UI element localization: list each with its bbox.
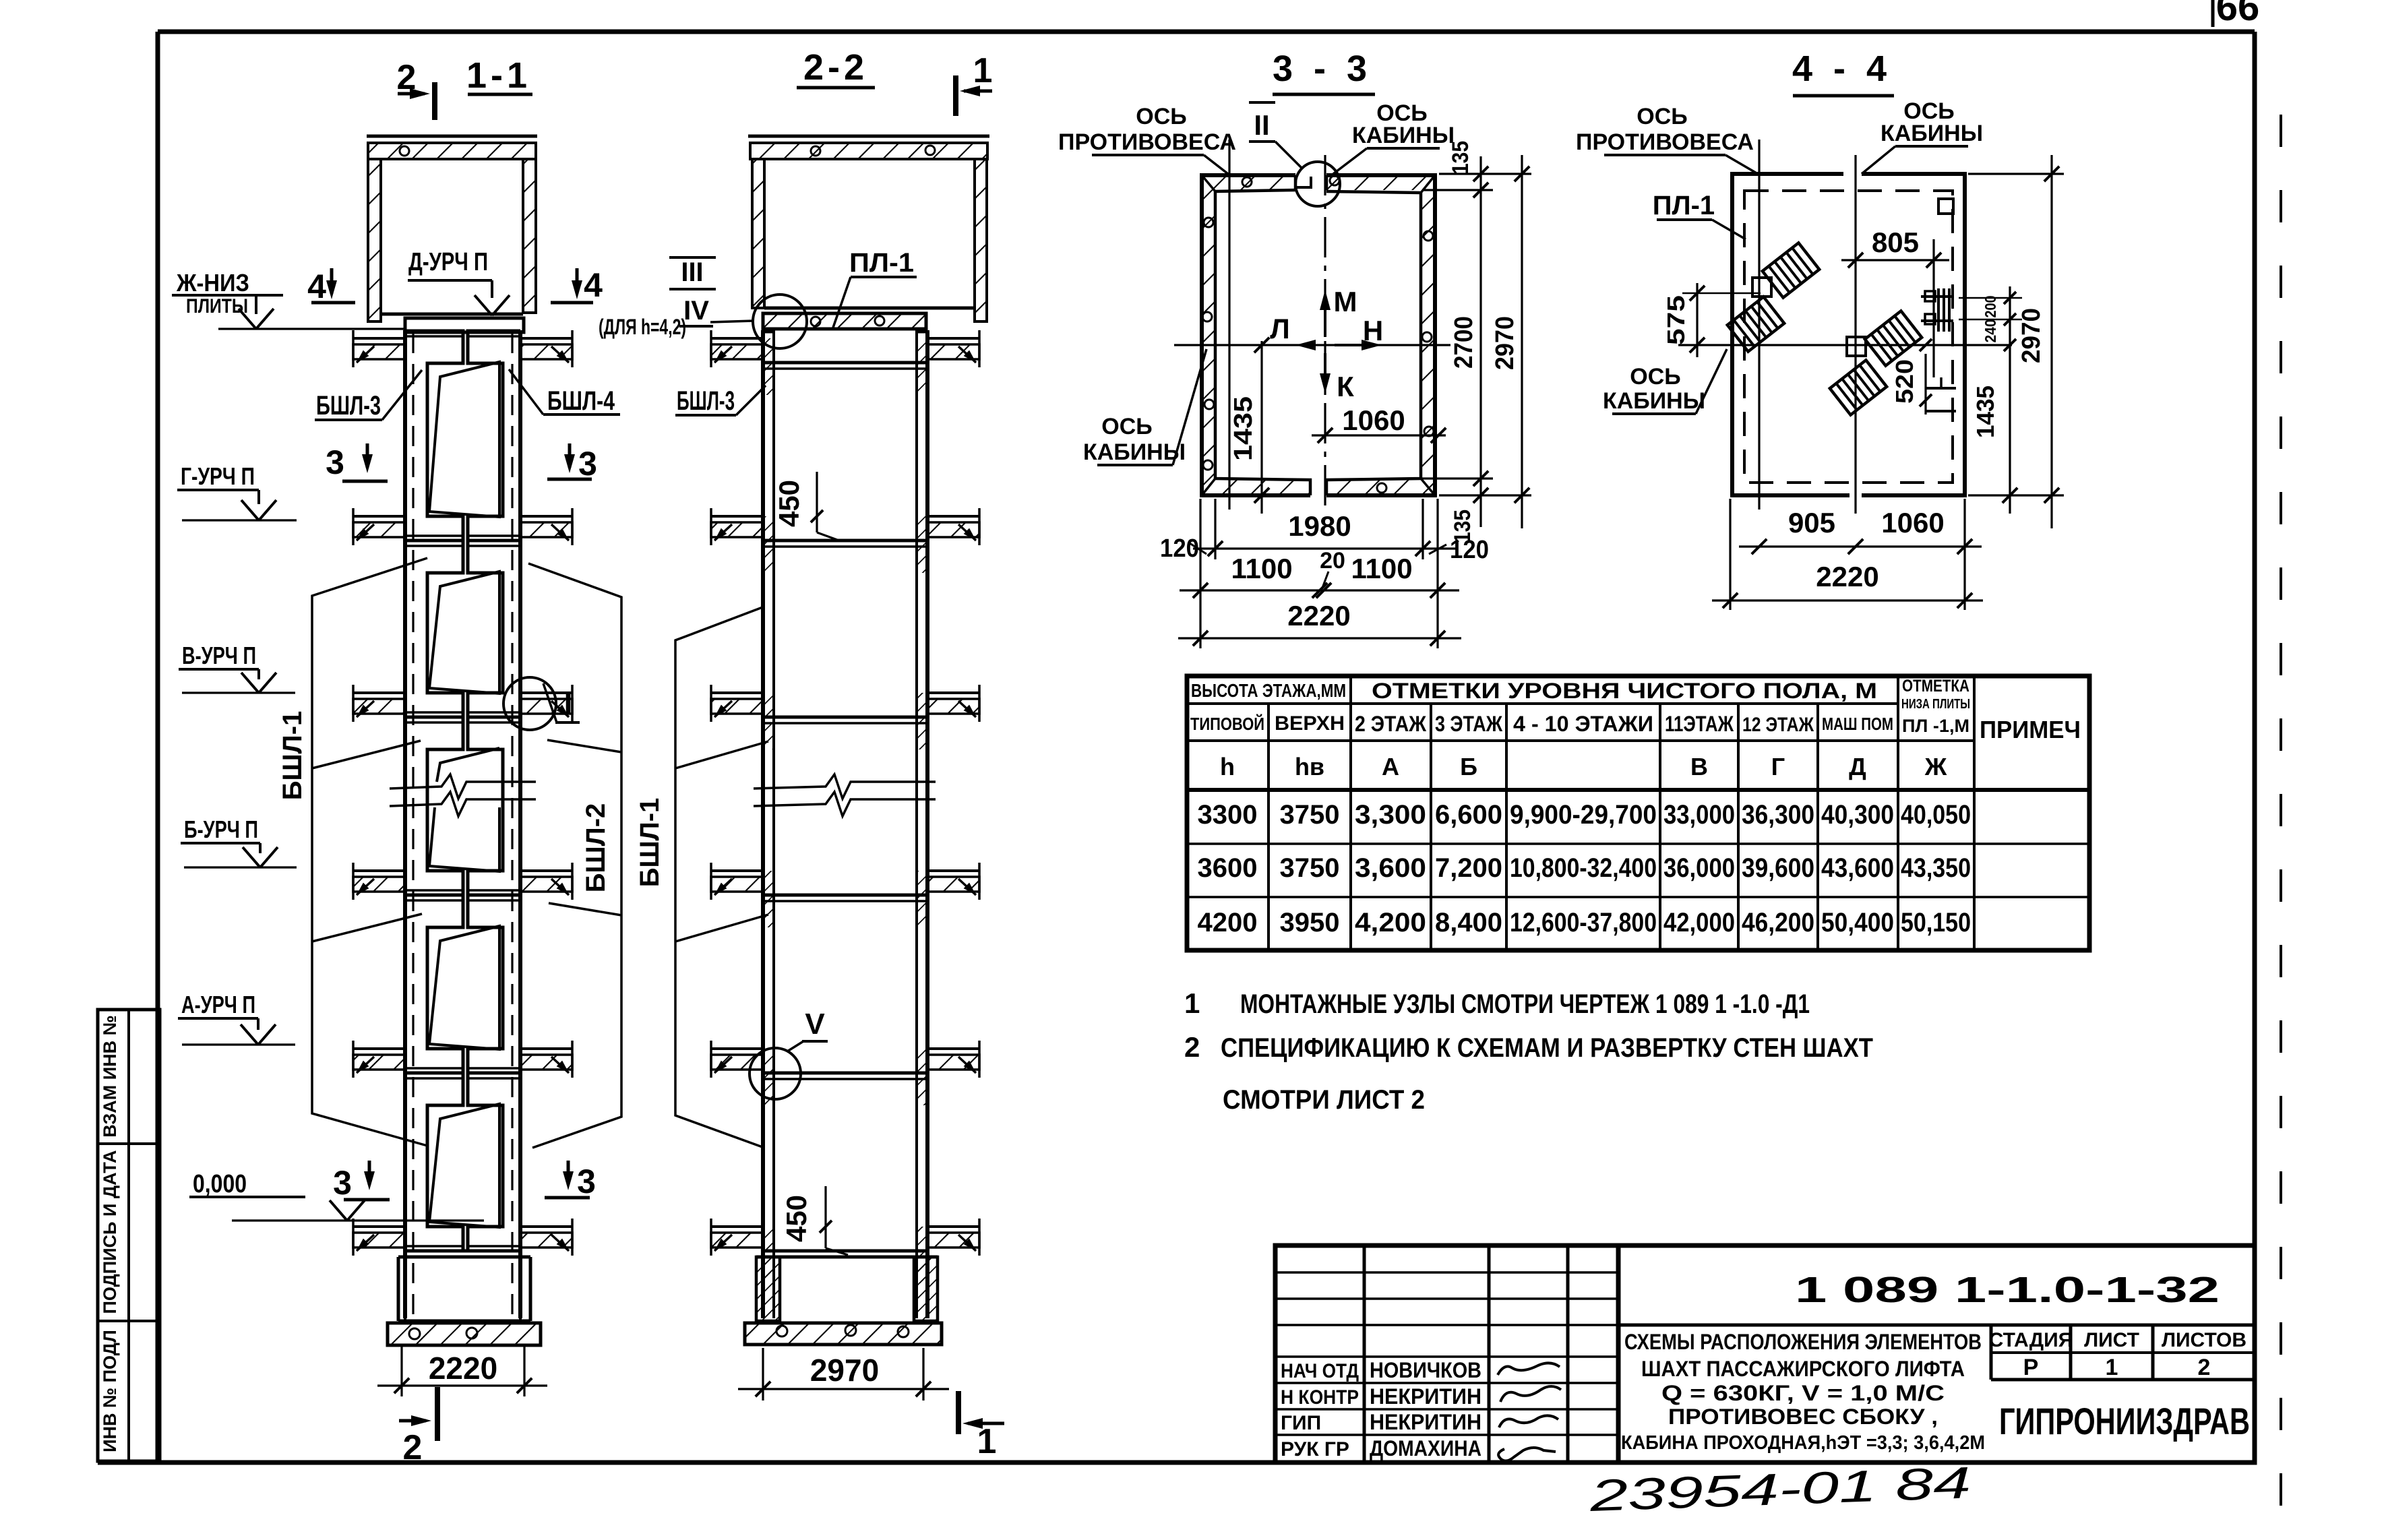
svg-text:10,800-32,400: 10,800-32,400 bbox=[1510, 853, 1657, 883]
slab PL-1 under machine room 1-1 bbox=[405, 318, 524, 332]
svg-text:НЕКРИТИН: НЕКРИТИН bbox=[1370, 1410, 1481, 1434]
svg-text:h: h bbox=[1220, 753, 1235, 780]
machine room 1-1 left wall bbox=[368, 159, 381, 321]
machine room 1-1 right wall bbox=[523, 159, 536, 313]
svg-text:II: II bbox=[1254, 109, 1269, 141]
machine room 2-2 left wall bbox=[752, 159, 764, 308]
foundation slab 1-1 bbox=[388, 1323, 541, 1345]
plan 3-3 center arrows M L N K bbox=[1324, 295, 1326, 337]
svg-text:М: М bbox=[1334, 286, 1357, 317]
title block row lines bbox=[1275, 1271, 1618, 1274]
svg-text:4,200: 4,200 bbox=[1355, 908, 1426, 937]
svg-text:ВЫСОТА ЭТАЖА,ММ: ВЫСОТА ЭТАЖА,ММ bbox=[1191, 680, 1346, 701]
break lines shaft 1-1 bbox=[390, 774, 536, 799]
svg-text:ГИП: ГИП bbox=[1281, 1412, 1321, 1434]
shaft 1-1 wall panel blocks y1064 bbox=[405, 717, 463, 895]
machine room 1-1 floor line bbox=[381, 313, 523, 316]
plan 4-4 buffer bracket right lower bbox=[1926, 387, 1956, 390]
svg-text:МАШ ПОМ: МАШ ПОМ bbox=[1822, 714, 1893, 734]
svg-text:БШЛ-3: БШЛ-3 bbox=[677, 386, 735, 416]
foundation slab 2-2 bbox=[745, 1323, 942, 1345]
svg-text:3 - 3: 3 - 3 bbox=[1273, 49, 1372, 89]
svg-text:ВЕРХН: ВЕРХН bbox=[1275, 712, 1345, 735]
plan 3-3 bottom dim 1980 bbox=[1214, 499, 1216, 559]
svg-text:ВЗАМ ИНВ №: ВЗАМ ИНВ № bbox=[100, 1015, 120, 1138]
svg-text:20: 20 bbox=[1320, 548, 1345, 574]
svg-text:Д: Д bbox=[1849, 753, 1866, 780]
plan 3-3 counterweight axis line bbox=[1228, 140, 1230, 510]
svg-text:40,050: 40,050 bbox=[1901, 800, 1971, 830]
svg-text:36,000: 36,000 bbox=[1663, 853, 1735, 883]
svg-text:40,300: 40,300 bbox=[1821, 800, 1894, 830]
svg-text:240: 240 bbox=[1982, 319, 1999, 343]
svg-text:Г-УРЧ П: Г-УРЧ П bbox=[181, 462, 255, 490]
shaft 1-1 wall panel blocks y491 bbox=[405, 331, 463, 541]
svg-text:3: 3 bbox=[326, 443, 344, 481]
svg-text:Л: Л bbox=[1270, 313, 1289, 344]
svg-text:9,900-29,700: 9,900-29,700 bbox=[1510, 800, 1657, 830]
plan 3-3 bottom dim 2220 bbox=[1178, 637, 1461, 639]
svg-text:3750: 3750 bbox=[1280, 800, 1340, 830]
svg-text:ИНВ № ПОДЛ: ИНВ № ПОДЛ bbox=[100, 1330, 120, 1452]
svg-text:46,200: 46,200 bbox=[1742, 908, 1814, 937]
section marker 1 bottom bbox=[956, 1391, 961, 1434]
svg-text:1980: 1980 bbox=[1288, 510, 1351, 542]
floor slab stubs 1-1 bbox=[353, 337, 405, 340]
svg-text:Q = 630КГ, V = 1,0 М/С: Q = 630КГ, V = 1,0 М/С bbox=[1661, 1381, 1945, 1405]
plan 3-3 corner miters bbox=[1202, 175, 1215, 191]
svg-text:42,000: 42,000 bbox=[1663, 908, 1735, 937]
detail circle II on 3-3 bbox=[1295, 162, 1340, 206]
svg-text:III: III bbox=[681, 257, 703, 287]
svg-text:905: 905 bbox=[1788, 507, 1835, 538]
svg-text:1: 1 bbox=[977, 1422, 997, 1461]
svg-text:3,600: 3,600 bbox=[1355, 853, 1426, 883]
svg-text:805: 805 bbox=[1872, 226, 1919, 258]
svg-text:СХЕМЫ РАСПОЛОЖЕНИЯ ЭЛЕМЕНТОВ: СХЕМЫ РАСПОЛОЖЕНИЯ ЭЛЕМЕНТОВ bbox=[1624, 1330, 1982, 1354]
plan 3-3 bottom dim 1100 1100 20 bbox=[1199, 499, 1201, 648]
svg-text:СМОТРИ ЛИСТ 2: СМОТРИ ЛИСТ 2 bbox=[1223, 1085, 1425, 1115]
svg-text:3: 3 bbox=[577, 1163, 596, 1200]
table vertical lines bbox=[1267, 704, 1270, 950]
svg-text:39,600: 39,600 bbox=[1742, 853, 1814, 883]
svg-text:33,000: 33,000 bbox=[1663, 800, 1735, 830]
svg-text:Г: Г bbox=[1771, 753, 1785, 780]
svg-text:ОСЬ: ОСЬ bbox=[1630, 364, 1680, 390]
shaft 1-1 wall panel blocks y802 bbox=[405, 541, 463, 717]
svg-text:ОСЬ: ОСЬ bbox=[1101, 414, 1152, 439]
plan 4-4 dims 200 240 1435 bbox=[2009, 286, 2011, 514]
shaft 1-1 wall panel blocks y1328 bbox=[405, 895, 463, 1073]
svg-text:11ЭТАЖ: 11ЭТАЖ bbox=[1665, 712, 1734, 736]
svg-text:КАБИНЫ: КАБИНЫ bbox=[1083, 439, 1186, 465]
svg-text:СПЕЦИФИКАЦИЮ К СХЕМАМ И РАЗВ: СПЕЦИФИКАЦИЮ К СХЕМАМ И РАЗВЕРТКУ СТЕН Ш… bbox=[1221, 1033, 1873, 1063]
plan 4-4 rail bracket hatched 3 bbox=[1865, 311, 1922, 365]
stadiya list listov sub-table bbox=[1990, 1325, 1993, 1380]
svg-text:2: 2 bbox=[403, 1428, 423, 1467]
section marker 3 right lower bbox=[567, 1161, 570, 1185]
plan 4-4 bottom dims 905 1060 bbox=[1729, 499, 1731, 610]
svg-text:КАБИНЫ: КАБИНЫ bbox=[1352, 123, 1455, 148]
svg-text:КАБИНА ПРОХОДНАЯ,hЭТ =3,3; 3,: КАБИНА ПРОХОДНАЯ,hЭТ =3,3; 3,6,4,2М bbox=[1621, 1432, 1985, 1454]
svg-text:ПРОТИВОВЕС СБОКУ ,: ПРОТИВОВЕС СБОКУ , bbox=[1668, 1405, 1938, 1429]
svg-text:2970: 2970 bbox=[1491, 316, 1519, 370]
plan 4-4 rail bracket hatched 2 bbox=[1728, 297, 1784, 351]
svg-text:В-УРЧ П: В-УРЧ П bbox=[182, 642, 256, 669]
shaft 1-1 door leaf y491 bbox=[429, 362, 499, 517]
svg-text:ПЛИТЫ: ПЛИТЫ bbox=[186, 295, 248, 317]
svg-text:1060: 1060 bbox=[1881, 507, 1944, 538]
grouping bracket BShL-1 wing of 2-2 bbox=[675, 607, 764, 1148]
svg-text:БШЛ-1: БШЛ-1 bbox=[278, 711, 307, 801]
svg-text:НАЧ ОТД: НАЧ ОТД bbox=[1281, 1360, 1359, 1382]
svg-text:43,600: 43,600 bbox=[1821, 853, 1894, 883]
svg-text:0,000: 0,000 bbox=[193, 1170, 247, 1198]
svg-text:А: А bbox=[1382, 753, 1399, 780]
svg-text:3: 3 bbox=[333, 1164, 352, 1202]
shaft 2-2 first panel top edge bbox=[763, 330, 774, 334]
plan 4-4 rail bracket hatched 4 bbox=[1830, 360, 1887, 414]
plan 4-4 dim chain 2970 bbox=[2050, 155, 2052, 528]
plan 3-3 top door opening notch bbox=[1294, 175, 1297, 190]
plan 3-3 inner wall outline bbox=[1215, 190, 1310, 495]
slab PL-1 2-2 hatched bbox=[763, 313, 926, 329]
svg-text:12,600-37,800: 12,600-37,800 bbox=[1510, 908, 1657, 937]
plan 3-3 cab axis vertical dash-dot bbox=[1324, 155, 1326, 514]
svg-text:2-2: 2-2 bbox=[803, 47, 868, 88]
shaft 1-1 door leaf y1328 bbox=[429, 926, 499, 1049]
svg-text:4200: 4200 bbox=[1198, 908, 1258, 937]
sidebar stamp boxes bbox=[98, 1010, 160, 1461]
svg-text:К: К bbox=[1337, 371, 1354, 402]
svg-text:4 - 10 ЭТАЖИ: 4 - 10 ЭТАЖИ bbox=[1513, 712, 1653, 736]
svg-text:3600: 3600 bbox=[1198, 853, 1258, 883]
machine room 1-1 top slab bbox=[367, 135, 537, 138]
svg-text:12 ЭТАЖ: 12 ЭТАЖ bbox=[1742, 714, 1814, 736]
pit walls 1-1 bbox=[405, 1250, 520, 1253]
plan 4-4 cab axis bbox=[1854, 155, 1856, 514]
svg-text:2: 2 bbox=[1184, 1031, 1200, 1063]
svg-text:Н: Н bbox=[1363, 315, 1383, 346]
plan 4-4 counterweight rail bracket right bbox=[1921, 295, 1953, 298]
svg-text:2220: 2220 bbox=[429, 1351, 497, 1386]
svg-text:3,300: 3,300 bbox=[1355, 800, 1426, 830]
dimension 2970 under 2-2 bbox=[762, 1348, 764, 1400]
svg-text:1-1: 1-1 bbox=[466, 55, 531, 96]
svg-text:Ж: Ж bbox=[1924, 753, 1947, 780]
title block divider under doc number bbox=[1618, 1324, 2255, 1327]
svg-text:2220: 2220 bbox=[1287, 600, 1350, 632]
section marker 4 right bbox=[576, 268, 579, 294]
shaft 1-1 door leaf y1064 bbox=[437, 748, 499, 782]
fold dashed line bbox=[2280, 115, 2282, 1540]
svg-text:ГИПРОНИИЗДРАВ: ГИПРОНИИЗДРАВ bbox=[1999, 1400, 2250, 1442]
svg-text:ОТМЕТКИ УРОВНЯ ЧИСТОГО ПОЛА: ОТМЕТКИ УРОВНЯ ЧИСТОГО ПОЛА, М bbox=[1372, 679, 1877, 703]
svg-text:БШЛ-3: БШЛ-3 bbox=[316, 391, 381, 421]
svg-text:МОНТАЖНЫЕ УЗЛЫ СМОТРИ ЧЕРТЕ: МОНТАЖНЫЕ УЗЛЫ СМОТРИ ЧЕРТЕЖ 1 089 1 -1.… bbox=[1240, 989, 1810, 1019]
svg-text:450: 450 bbox=[781, 1195, 812, 1242]
svg-text:8,400: 8,400 bbox=[1435, 908, 1502, 937]
plan 3-3 right dim chain 135 2700 bbox=[1439, 173, 1531, 175]
detail circle I on 1-1 bbox=[503, 677, 556, 730]
plan 4-4 rail bracket hatched 1 bbox=[1763, 243, 1819, 297]
svg-text:ШАХТ ПАССАЖИРСКОГО ЛИФТА: ШАХТ ПАССАЖИРСКОГО ЛИФТА bbox=[1641, 1357, 1965, 1381]
svg-text:1435: 1435 bbox=[1972, 386, 1999, 438]
svg-text:3950: 3950 bbox=[1280, 908, 1340, 937]
machine room 2-2 floor line bbox=[764, 307, 975, 310]
floor slab stubs 2-2 bbox=[711, 337, 763, 340]
pit walls 2-2 bbox=[756, 1257, 780, 1321]
svg-text:120: 120 bbox=[1160, 534, 1199, 563]
svg-text:3750: 3750 bbox=[1280, 853, 1340, 883]
svg-text:ПРОТИВОВЕСА: ПРОТИВОВЕСА bbox=[1576, 129, 1754, 155]
svg-text:ПЛ -1,М: ПЛ -1,М bbox=[1902, 716, 1969, 736]
svg-text:ПРОТИВОВЕСА: ПРОТИВОВЕСА bbox=[1058, 129, 1236, 155]
svg-text:66: 66 bbox=[2216, 0, 2260, 29]
detail circle V on 2-2 bbox=[750, 1048, 801, 1099]
svg-text:50,400: 50,400 bbox=[1821, 908, 1894, 937]
svg-text:А-УРЧ П: А-УРЧ П bbox=[181, 991, 255, 1018]
svg-text:Ж-НИЗ: Ж-НИЗ bbox=[176, 269, 249, 297]
svg-text:НЕКРИТИН: НЕКРИТИН bbox=[1370, 1384, 1481, 1409]
plan 4-4 bottom dim 2220 bbox=[1712, 599, 1983, 601]
shaft 1-1 left wall dashed line bbox=[412, 333, 414, 1317]
svg-text:4 - 4: 4 - 4 bbox=[1792, 49, 1892, 89]
svg-text:ПРИМЕЧ: ПРИМЕЧ bbox=[1980, 716, 2081, 743]
svg-text:1: 1 bbox=[2106, 1355, 2118, 1380]
svg-text:1: 1 bbox=[973, 51, 993, 90]
svg-text:575: 575 bbox=[1662, 295, 1690, 345]
svg-text:(ДЛЯ h=4,2): (ДЛЯ h=4,2) bbox=[599, 315, 686, 339]
plan 4-4 rail clip square 1 bbox=[1752, 278, 1771, 297]
svg-text:120: 120 bbox=[1450, 536, 1489, 564]
svg-text:В: В bbox=[1690, 753, 1708, 780]
svg-text:4: 4 bbox=[584, 266, 603, 304]
svg-text:КАБИНЫ: КАБИНЫ bbox=[1603, 388, 1705, 414]
shaft 1-1 left wall outer line bbox=[403, 330, 407, 1318]
svg-text:2700: 2700 bbox=[1450, 316, 1478, 369]
svg-text:БШЛ-4: БШЛ-4 bbox=[547, 386, 615, 416]
svg-text:2970: 2970 bbox=[2017, 308, 2046, 363]
break lines shaft 2-2 bbox=[754, 774, 936, 799]
svg-text:ОСЬ: ОСЬ bbox=[1136, 104, 1186, 129]
shaft 2-2 left wall lines bbox=[761, 330, 765, 1318]
svg-text:1100: 1100 bbox=[1231, 553, 1292, 584]
plan 3-3 dim chain 2970 bbox=[1521, 155, 1523, 528]
svg-text:1 089 1-1.0-1-32: 1 089 1-1.0-1-32 bbox=[1795, 1270, 2220, 1310]
sheet frame bbox=[158, 30, 2255, 34]
svg-text:ТИПОВОЙ: ТИПОВОЙ bbox=[1190, 714, 1264, 734]
svg-text:ОСЬ: ОСЬ bbox=[1637, 104, 1687, 129]
shaft 1-1 door leaf y802 bbox=[429, 572, 499, 694]
shaft 1-1 right wall dashed line bbox=[511, 333, 513, 1317]
svg-text:ПЛ-1: ПЛ-1 bbox=[1653, 191, 1715, 220]
shaft 1-1 wall panel blocks y1592 bbox=[405, 1073, 463, 1251]
svg-text:2: 2 bbox=[2198, 1355, 2211, 1380]
section marker 2 bottom bbox=[399, 1419, 426, 1423]
svg-text:ДОМАХИНА: ДОМАХИНА bbox=[1370, 1436, 1481, 1460]
floor levels table outer border bbox=[1187, 676, 2089, 950]
svg-text:ЛИСТ: ЛИСТ bbox=[2084, 1329, 2139, 1351]
detail circle at PL-1 end bbox=[753, 295, 807, 348]
plan 4-4 slab PL-1 dashed outline bbox=[1744, 191, 1953, 483]
grouping bracket BShL-2 right wing bbox=[528, 563, 621, 1148]
plan 3-3 outer wall outline bbox=[1202, 175, 1310, 495]
plan 3-3 hatch texture circles bbox=[1204, 218, 1213, 227]
svg-text:50,150: 50,150 bbox=[1901, 908, 1971, 937]
machine room 2-2 top slab bbox=[748, 135, 989, 138]
title block outer box bbox=[1275, 1245, 2255, 1462]
dimension 2220 under 1-1 bbox=[400, 1347, 402, 1396]
plan 4-4 top right notch bbox=[1938, 199, 1953, 214]
svg-text:7,200: 7,200 bbox=[1435, 853, 1502, 883]
shaft 1-1 right wall outer line bbox=[518, 330, 522, 1318]
shaft 2-2 wall hatch blocks and interior joint lines bbox=[763, 338, 774, 395]
plan 3-3 cab axis horizontal bbox=[1174, 344, 1450, 346]
svg-text:3: 3 bbox=[578, 445, 597, 483]
svg-text:Б-УРЧ П: Б-УРЧ П bbox=[184, 815, 258, 843]
title block vertical lines left part bbox=[1363, 1245, 1366, 1462]
svg-text:БШЛ-2: БШЛ-2 bbox=[581, 803, 611, 893]
plan 4-4 outer wall outline bbox=[1732, 174, 1850, 495]
svg-text:Н КОНТР: Н КОНТР bbox=[1281, 1386, 1359, 1409]
shaft 2-2 right wall lines bbox=[925, 330, 929, 1318]
signatures bbox=[1498, 1363, 1561, 1460]
svg-text:450: 450 bbox=[773, 480, 805, 527]
svg-text:1: 1 bbox=[1184, 987, 1200, 1019]
svg-text:Б: Б bbox=[1460, 753, 1477, 780]
svg-text:РУК ГР: РУК ГР bbox=[1281, 1438, 1349, 1460]
svg-text:НОВИЧКОВ: НОВИЧКОВ bbox=[1370, 1358, 1481, 1382]
svg-text:Д-УРЧ П: Д-УРЧ П bbox=[408, 248, 488, 276]
grouping bracket BShL-1 left wing bbox=[312, 558, 427, 1146]
svg-text:43,350: 43,350 bbox=[1901, 853, 1971, 883]
svg-text:2970: 2970 bbox=[810, 1353, 879, 1388]
svg-text:520: 520 bbox=[1891, 359, 1918, 404]
svg-text:НИЗА ПЛИТЫ: НИЗА ПЛИТЫ bbox=[1901, 697, 1970, 712]
svg-text:СТАДИЯ: СТАДИЯ bbox=[1989, 1329, 2073, 1351]
svg-text:6,600: 6,600 bbox=[1435, 800, 1502, 830]
svg-text:1435: 1435 bbox=[1229, 396, 1258, 461]
svg-text:КАБИНЫ: КАБИНЫ bbox=[1881, 121, 1983, 146]
svg-text:ПОДПИСЬ И ДАТА: ПОДПИСЬ И ДАТА bbox=[100, 1150, 120, 1314]
svg-text:hв: hв bbox=[1295, 753, 1324, 780]
svg-text:Р: Р bbox=[2023, 1355, 2039, 1380]
svg-text:3300: 3300 bbox=[1198, 800, 1258, 830]
plan 4-4 rail clip square 2 bbox=[1847, 337, 1866, 356]
plan 4-4 horizontal cab axis bbox=[1678, 344, 2012, 346]
svg-text:I: I bbox=[564, 686, 573, 721]
svg-text:2220: 2220 bbox=[1816, 561, 1878, 592]
section marker 3 right upper bbox=[568, 443, 572, 468]
svg-text:135: 135 bbox=[1448, 141, 1473, 175]
svg-text:4: 4 bbox=[307, 268, 326, 305]
svg-text:1060: 1060 bbox=[1342, 404, 1405, 436]
svg-text:2 ЭТАЖ: 2 ЭТАЖ bbox=[1355, 712, 1427, 736]
machine room 2-2 right wall bbox=[975, 159, 987, 321]
svg-text:ЛИСТОВ: ЛИСТОВ bbox=[2162, 1329, 2247, 1351]
svg-text:IV: IV bbox=[683, 296, 709, 326]
section marker 1 top bbox=[953, 75, 958, 116]
table horizontal lines bbox=[1187, 702, 1898, 705]
svg-text:V: V bbox=[805, 1008, 825, 1041]
svg-text:ОТМЕТКА: ОТМЕТКА bbox=[1902, 677, 1969, 696]
svg-text:БШЛ-1: БШЛ-1 bbox=[635, 798, 665, 888]
svg-text:3 ЭТАЖ: 3 ЭТАЖ bbox=[1435, 712, 1503, 736]
plan 3-3 walls hatched bbox=[1202, 175, 1435, 495]
svg-text:200: 200 bbox=[1982, 296, 1999, 318]
svg-text:ПЛ-1: ПЛ-1 bbox=[849, 248, 914, 278]
shaft 1-1 door leaf y1592 bbox=[429, 1104, 499, 1227]
svg-text:36,300: 36,300 bbox=[1742, 800, 1814, 830]
plan 4-4 counterweight axis bbox=[1758, 140, 1760, 510]
svg-text:1100: 1100 bbox=[1351, 553, 1412, 584]
